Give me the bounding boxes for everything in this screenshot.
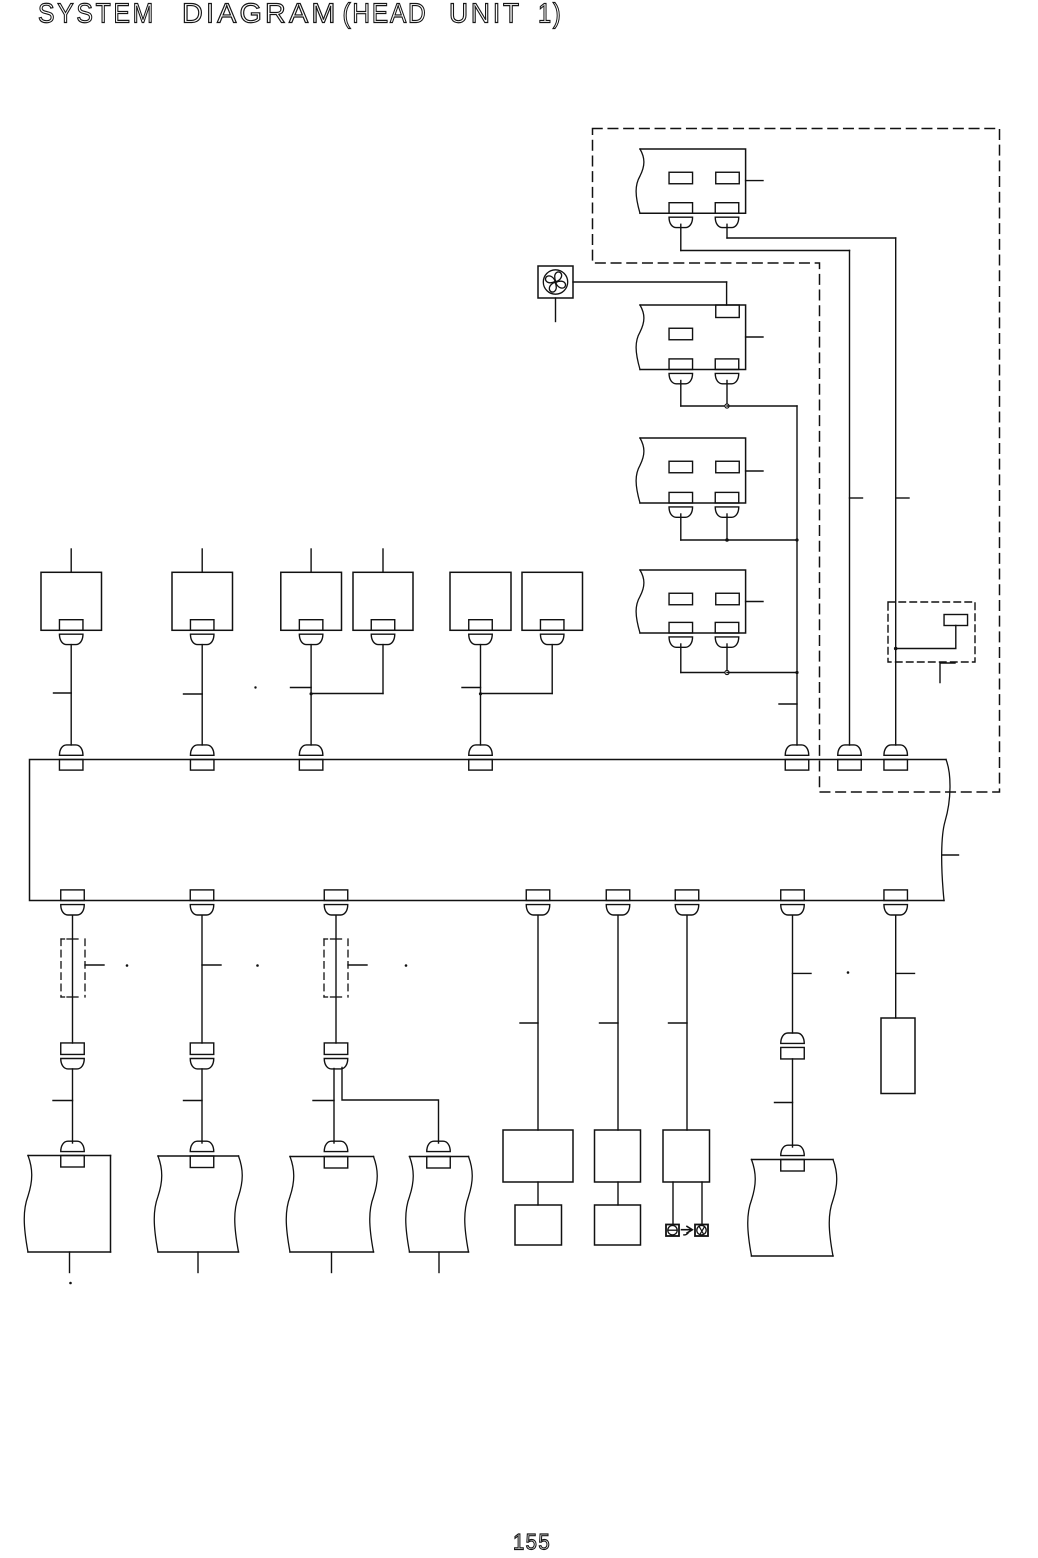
svg-text:(HEAD: (HEAD — [343, 0, 428, 29]
svg-text:1): 1) — [538, 0, 563, 29]
svg-text:DIAGRAM: DIAGRAM — [182, 0, 339, 29]
svg-text:UNIT: UNIT — [449, 0, 522, 29]
svg-text:155: 155 — [513, 1530, 551, 1555]
svg-text:SYSTEM: SYSTEM — [38, 0, 156, 29]
